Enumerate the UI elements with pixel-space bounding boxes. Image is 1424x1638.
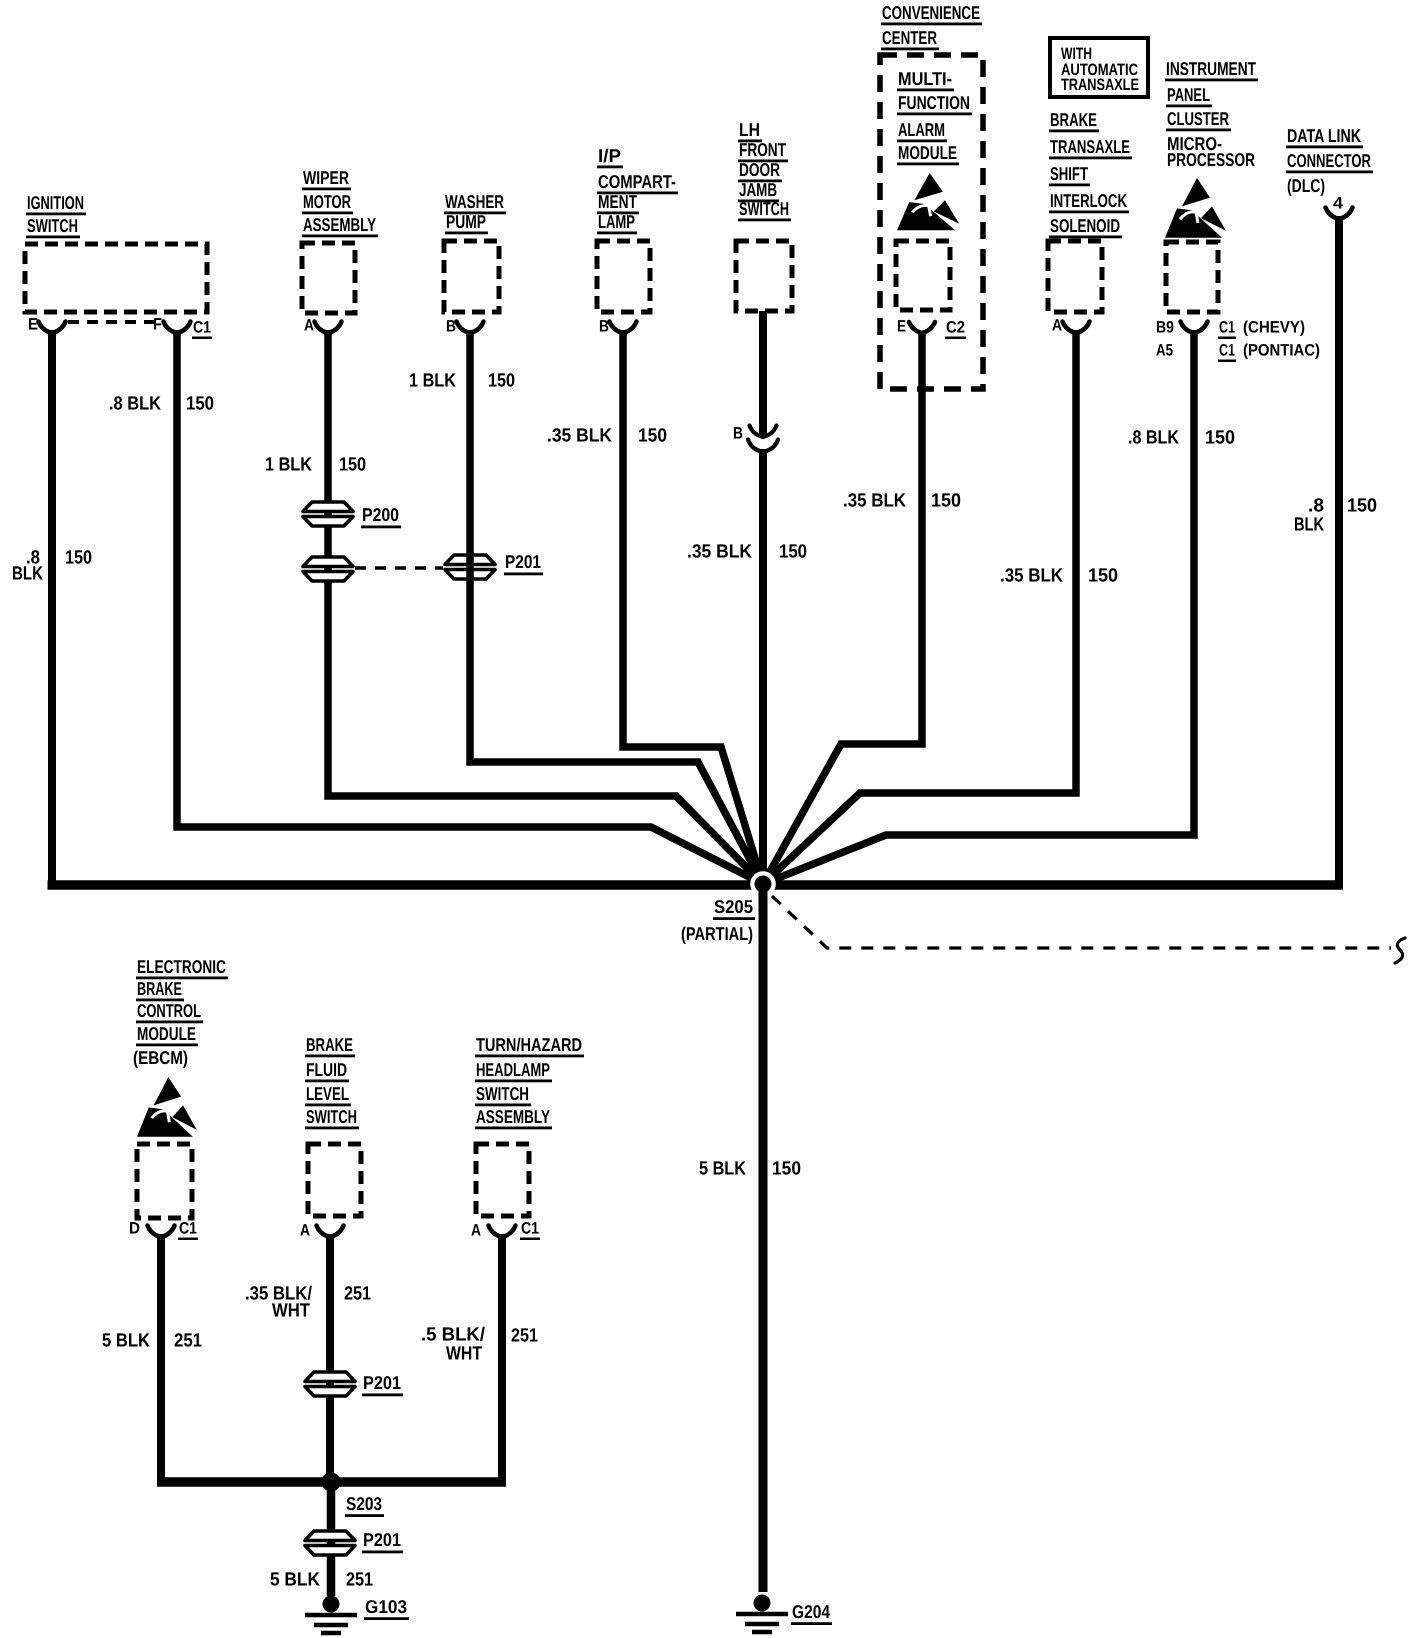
with automatic transaxle note box xyxy=(1050,38,1148,97)
brake transaxle shift interlock solenoid label xyxy=(1049,109,1132,238)
svg-text:TURN/HAZARD: TURN/HAZARD xyxy=(476,1034,582,1055)
wire instrument cluster to S205 xyxy=(763,330,1194,884)
wire ignition E to ground bus xyxy=(48,330,56,881)
label P200 xyxy=(361,504,401,528)
label S203 xyxy=(345,1493,384,1517)
svg-text:SWITCH: SWITCH xyxy=(476,1083,529,1104)
inline connector P201 (wiper wire) xyxy=(303,557,353,581)
connector label C1 (turn/hazard) xyxy=(520,1220,540,1241)
svg-text:FRONT: FRONT xyxy=(739,139,787,160)
pin F (ignition switch) xyxy=(153,316,191,334)
pin 4 (data link connector) xyxy=(1326,195,1353,220)
svg-text:DOOR: DOOR xyxy=(739,159,780,180)
label G103 xyxy=(364,1596,409,1620)
wire I/P compartment lamp to S205 xyxy=(623,330,763,884)
inline connector P201 (brake fluid wire) xyxy=(305,1372,355,1396)
svg-text:A: A xyxy=(471,1222,481,1240)
svg-text:PUMP: PUMP xyxy=(446,211,486,232)
svg-text:4: 4 xyxy=(1333,195,1344,213)
wire label .8 BLK 150 (ignition E) xyxy=(12,548,92,585)
instrument panel cluster label xyxy=(1165,58,1258,170)
svg-text:LEVEL: LEVEL xyxy=(306,1083,349,1104)
inline connector P201 (washer wire) xyxy=(445,555,495,579)
I/P compartment lamp connector box xyxy=(597,241,650,312)
inline connector P200 (wiper wire) xyxy=(303,502,353,526)
svg-text:INTERLOCK: INTERLOCK xyxy=(1050,190,1127,211)
svg-text:P201: P201 xyxy=(363,1529,401,1550)
svg-text:150: 150 xyxy=(1205,428,1235,449)
svg-text:CONVENIENCE: CONVENIENCE xyxy=(882,2,980,23)
svg-text:TRANSAXLE: TRANSAXLE xyxy=(1061,76,1139,94)
svg-text:MODULE: MODULE xyxy=(137,1023,196,1044)
pin E (ignition switch) xyxy=(28,316,66,334)
wire label .35 BLK 150 (door jamb) xyxy=(687,542,807,563)
svg-text:150: 150 xyxy=(339,455,366,476)
washer pump connector box xyxy=(444,241,499,312)
svg-text:LH: LH xyxy=(739,119,760,140)
wire label .35 BLK 150 (I/P lamp) xyxy=(547,426,667,447)
wire label .35 BLK 150 (alarm module) xyxy=(843,491,961,512)
turn/hazard headlamp switch label xyxy=(475,1034,584,1129)
ground G103 xyxy=(305,1596,357,1634)
wire label 5 BLK 251 (ground run) xyxy=(270,1570,373,1591)
svg-text:ELECTRONIC: ELECTRONIC xyxy=(137,956,226,977)
wire label .8 BLK 150 (ignition F) xyxy=(109,394,214,415)
svg-text:JAMB: JAMB xyxy=(739,179,777,200)
connector label C1 (Pontiac) xyxy=(1218,342,1320,363)
svg-text:S205: S205 xyxy=(714,896,753,917)
wiper motor assembly connector box xyxy=(302,243,355,313)
ground bus S205 xyxy=(48,880,1344,890)
wire label .35 BLK/WHT 251 xyxy=(245,1284,371,1322)
svg-text:251: 251 xyxy=(174,1331,202,1352)
svg-text:PROCESSOR: PROCESSOR xyxy=(1167,149,1255,170)
svg-text:BRAKE: BRAKE xyxy=(1050,109,1097,130)
svg-text:SWITCH: SWITCH xyxy=(27,215,78,236)
svg-text:HEADLAMP: HEADLAMP xyxy=(476,1059,550,1080)
svg-text:A: A xyxy=(300,1222,310,1240)
svg-text:150: 150 xyxy=(1347,496,1377,517)
svg-text:B: B xyxy=(446,318,456,336)
svg-text:BLK: BLK xyxy=(12,564,43,585)
svg-text:150: 150 xyxy=(488,371,515,392)
svg-text:150: 150 xyxy=(186,394,214,415)
svg-text:SOLENOID: SOLENOID xyxy=(1050,215,1120,236)
svg-text:D: D xyxy=(129,1220,140,1238)
wire EBCM to S203 xyxy=(157,1234,165,1478)
convenience center outer box xyxy=(880,55,983,389)
wire label .5 BLK/WHT 251 xyxy=(421,1325,538,1365)
svg-text:WHT: WHT xyxy=(446,1344,482,1365)
svg-text:MULTI-: MULTI- xyxy=(898,68,952,89)
svg-text:.5 BLK/: .5 BLK/ xyxy=(421,1325,486,1346)
turn/hazard switch connector box xyxy=(476,1144,529,1216)
pin B9/A5 (instrument panel cluster) xyxy=(1156,319,1208,360)
dashed link between P201 halves xyxy=(355,566,443,570)
svg-text:1 BLK: 1 BLK xyxy=(409,371,456,392)
brake fluid level switch label xyxy=(305,1034,359,1129)
splice S205 xyxy=(750,871,776,897)
svg-text:.35 BLK: .35 BLK xyxy=(843,491,906,512)
inline connector B (door jamb wire) xyxy=(733,425,778,453)
wire label 5 BLK 150 (ground run) xyxy=(699,1159,801,1180)
pin A (brake fluid switch) xyxy=(300,1222,344,1240)
brake fluid level switch connector box xyxy=(308,1144,361,1216)
svg-text:1 BLK: 1 BLK xyxy=(265,455,312,476)
wire S205 to G204 xyxy=(759,884,768,1592)
wire turn/hazard switch to S203 xyxy=(498,1234,506,1478)
svg-text:TRANSAXLE: TRANSAXLE xyxy=(1050,136,1130,157)
svg-text:G204: G204 xyxy=(792,1601,831,1622)
svg-text:PANEL: PANEL xyxy=(1167,84,1210,105)
svg-text:150: 150 xyxy=(779,542,807,563)
svg-text:5 BLK: 5 BLK xyxy=(102,1331,150,1352)
svg-text:SWITCH: SWITCH xyxy=(739,198,789,219)
svg-text:E: E xyxy=(28,316,38,334)
svg-text:(PONTIAC): (PONTIAC) xyxy=(1243,342,1320,360)
svg-text:A5: A5 xyxy=(1156,342,1173,360)
svg-text:SHIFT: SHIFT xyxy=(1050,163,1088,184)
pin A (turn/hazard switch) xyxy=(471,1222,516,1240)
wire door jamb switch upper segment xyxy=(759,311,767,435)
svg-text:ALARM: ALARM xyxy=(898,119,945,140)
svg-text:MOTOR: MOTOR xyxy=(303,191,351,212)
svg-text:G103: G103 xyxy=(365,1596,407,1617)
svg-text:251: 251 xyxy=(344,1284,371,1305)
wire interlock solenoid to S205 xyxy=(763,330,1076,884)
svg-text:CONTROL: CONTROL xyxy=(137,1000,201,1021)
connector label C1 (ignition) xyxy=(192,319,212,340)
svg-text:BRAKE: BRAKE xyxy=(306,1034,353,1055)
svg-text:5 BLK: 5 BLK xyxy=(699,1159,746,1180)
wire DLC to ground bus xyxy=(1335,216,1343,881)
svg-text:SWITCH: SWITCH xyxy=(306,1106,357,1127)
svg-text:150: 150 xyxy=(772,1159,801,1180)
svg-text:.8: .8 xyxy=(1308,496,1324,517)
svg-text:150: 150 xyxy=(1088,566,1118,587)
svg-text:150: 150 xyxy=(931,491,961,512)
wire S203 to G103 xyxy=(327,1482,336,1596)
ignition switch C1 face dashed line xyxy=(68,320,161,324)
svg-text:C1: C1 xyxy=(521,1220,539,1238)
pin D (EBCM) xyxy=(129,1220,175,1238)
svg-text:B9: B9 xyxy=(1156,319,1174,337)
svg-text:A: A xyxy=(304,317,314,335)
ignition switch connector box xyxy=(25,244,207,312)
svg-text:150: 150 xyxy=(638,426,667,447)
svg-text:5 BLK: 5 BLK xyxy=(270,1570,320,1591)
svg-text:CLUSTER: CLUSTER xyxy=(1167,108,1229,129)
EBCM connector box xyxy=(137,1144,192,1218)
label P201 (brake fluid wire) xyxy=(362,1372,403,1396)
splice S203 xyxy=(322,1473,341,1492)
label G204 xyxy=(791,1601,832,1625)
connector label C1 (EBCM) xyxy=(178,1220,198,1241)
wire door jamb switch to S205 xyxy=(759,449,767,884)
svg-text:A: A xyxy=(1052,317,1062,335)
svg-text:.35 BLK: .35 BLK xyxy=(1000,566,1063,587)
svg-text:.35 BLK: .35 BLK xyxy=(547,426,612,447)
svg-text:.35 BLK: .35 BLK xyxy=(687,542,752,563)
ESD symbol (EBCM) xyxy=(137,1077,197,1137)
wire alarm module to S205 xyxy=(763,332,922,884)
wire label 1 BLK 150 (washer pump) xyxy=(409,371,515,392)
continuation squiggle xyxy=(1395,938,1405,963)
wire label 1 BLK 150 (wiper motor) xyxy=(265,455,366,476)
svg-text:B: B xyxy=(599,318,609,336)
svg-text:WIPER: WIPER xyxy=(303,167,349,188)
LH front door jamb switch box xyxy=(736,241,792,311)
svg-text:(PARTIAL): (PARTIAL) xyxy=(681,923,753,944)
svg-text:P201: P201 xyxy=(505,551,541,572)
svg-text:WASHER: WASHER xyxy=(445,191,504,212)
svg-text:MENT: MENT xyxy=(598,191,638,212)
connector label C2 (alarm module) xyxy=(945,319,966,340)
svg-text:IGNITION: IGNITION xyxy=(27,192,84,213)
svg-text:251: 251 xyxy=(346,1570,373,1591)
ESD symbol (multi-function alarm module) xyxy=(897,173,959,230)
svg-text:ASSEMBLY: ASSEMBLY xyxy=(476,1106,550,1127)
ground G204 xyxy=(736,1595,788,1633)
connector label C1 (Chevy) xyxy=(1218,319,1305,340)
svg-text:FUNCTION: FUNCTION xyxy=(898,92,970,113)
multi-function alarm module label xyxy=(897,68,972,165)
wire label .8 BLK 150 (DLC) xyxy=(1294,496,1377,536)
svg-text:I/P: I/P xyxy=(598,145,621,166)
wire brake fluid switch to S203 xyxy=(326,1234,334,1482)
multi-function alarm module connector box xyxy=(896,241,950,310)
wire label .35 BLK 150 (solenoid) xyxy=(1000,566,1118,587)
wire label .8 BLK 150 (cluster) xyxy=(1128,428,1235,449)
svg-text:DATA LINK: DATA LINK xyxy=(1287,125,1361,146)
pin A (wiper motor) xyxy=(304,317,342,335)
wire label 5 BLK 251 (EBCM) xyxy=(102,1331,202,1352)
svg-text:E: E xyxy=(897,318,906,336)
svg-text:BLK: BLK xyxy=(1294,515,1324,536)
ground bus S203 xyxy=(157,1477,506,1487)
svg-text:CENTER: CENTER xyxy=(882,27,937,48)
washer pump label xyxy=(444,191,506,234)
label S205 (PARTIAL) xyxy=(681,896,755,944)
pin A (interlock solenoid) xyxy=(1052,317,1090,335)
I/P compartment lamp label xyxy=(597,145,678,234)
ignition switch label xyxy=(26,192,86,238)
instrument panel cluster connector box xyxy=(1166,242,1218,312)
svg-text:C1: C1 xyxy=(179,1220,197,1238)
wire wiper motor to S205 xyxy=(328,330,763,884)
svg-text:C1: C1 xyxy=(1219,342,1235,360)
svg-text:P200: P200 xyxy=(362,504,399,525)
pin E (alarm module) xyxy=(897,318,935,336)
svg-text:ASSEMBLY: ASSEMBLY xyxy=(303,214,376,235)
convenience center label xyxy=(881,2,982,50)
inline connector P201 (ground run) xyxy=(305,1531,355,1555)
svg-text:WHT: WHT xyxy=(272,1301,310,1322)
svg-text:251: 251 xyxy=(511,1326,538,1347)
svg-text:P201: P201 xyxy=(363,1372,401,1393)
ESD symbol (instrument panel cluster) xyxy=(1165,178,1226,238)
svg-text:(EBCM): (EBCM) xyxy=(133,1047,188,1068)
brake transaxle shift interlock solenoid connector box xyxy=(1048,241,1102,312)
pin B (I/P compartment lamp) xyxy=(599,318,637,336)
svg-text:150: 150 xyxy=(65,548,92,569)
svg-text:INSTRUMENT: INSTRUMENT xyxy=(1166,58,1257,79)
svg-text:BRAKE: BRAKE xyxy=(137,978,182,999)
pin B (washer pump) xyxy=(446,318,484,336)
svg-text:C1: C1 xyxy=(193,319,211,337)
svg-text:.8 BLK: .8 BLK xyxy=(1128,428,1179,449)
svg-text:F: F xyxy=(153,316,162,334)
svg-text:FLUID: FLUID xyxy=(306,1059,347,1080)
wiper motor assembly label xyxy=(302,167,378,237)
svg-text:C1: C1 xyxy=(1219,319,1235,337)
svg-text:S203: S203 xyxy=(346,1493,382,1514)
wire ignition F to S205 xyxy=(177,330,763,884)
wire washer pump to S205 xyxy=(470,330,763,884)
svg-text:CONNECTOR: CONNECTOR xyxy=(1287,150,1371,171)
svg-text:C2: C2 xyxy=(946,319,965,337)
svg-text:(CHEVY): (CHEVY) xyxy=(1243,319,1305,337)
svg-text:B: B xyxy=(733,425,743,443)
svg-text:(DLC): (DLC) xyxy=(1287,175,1325,196)
svg-text:MODULE: MODULE xyxy=(898,142,957,163)
svg-text:COMPART-: COMPART- xyxy=(598,171,676,192)
dashed reference line from S205 xyxy=(772,896,1391,948)
svg-text:LAMP: LAMP xyxy=(598,211,635,232)
svg-text:.8 BLK: .8 BLK xyxy=(109,394,161,415)
label P201 (washer) xyxy=(504,551,543,575)
label P201 (ground run) xyxy=(362,1529,403,1553)
data link connector label xyxy=(1286,125,1373,196)
LH front door jamb switch label xyxy=(738,119,791,221)
electronic brake control module label xyxy=(133,956,228,1068)
